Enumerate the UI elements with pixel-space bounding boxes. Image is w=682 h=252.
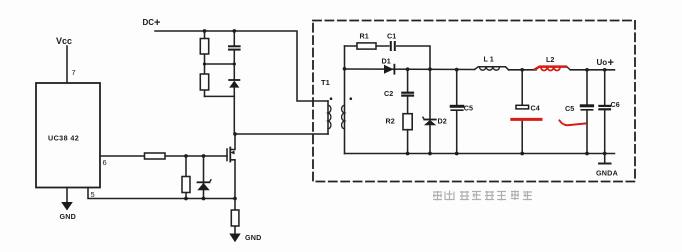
zener diode D2 label bbox=[438, 117, 447, 126]
ground GND (IC) bbox=[61, 202, 73, 211]
wire secondary ground rail bbox=[345, 153, 615, 155]
transformer T1 primary phase dot bbox=[330, 97, 333, 100]
svg-text:C4: C4 bbox=[531, 104, 540, 113]
wire C2/R2 damper branch bbox=[407, 69, 409, 92]
IC U1 value label bbox=[48, 134, 79, 143]
svg-text:C5: C5 bbox=[565, 104, 574, 113]
wire drain to primary bottom bbox=[234, 133, 328, 135]
node junction C5b branch bbox=[585, 68, 589, 72]
node secondary-top junction bbox=[343, 67, 347, 71]
inductor L2 (red annotated) bbox=[535, 67, 570, 71]
svg-text:Uo: Uo bbox=[597, 58, 608, 67]
capacitor C4 (black plate) bbox=[516, 105, 529, 109]
node DC+ label bbox=[143, 17, 161, 29]
svg-text:GND: GND bbox=[60, 212, 77, 221]
resistor R5 (current sense) bbox=[231, 210, 239, 226]
transformer T1 secondary phase dot bbox=[350, 97, 353, 100]
wire R4 branch bbox=[185, 156, 187, 199]
capacitor C5b label bbox=[565, 104, 574, 113]
svg-text:6: 6 bbox=[103, 158, 107, 167]
node Vcc label bbox=[56, 36, 72, 46]
svg-text:7: 7 bbox=[72, 68, 76, 77]
svg-text:C5: C5 bbox=[464, 104, 473, 113]
inductor L1 label bbox=[484, 55, 494, 64]
transformer T1 primary winding bbox=[328, 101, 331, 134]
wire pin 6 to gate bbox=[100, 155, 227, 157]
node junctions on DC+ rail bbox=[203, 29, 237, 33]
svg-text:R2: R2 bbox=[386, 117, 395, 126]
capacitor C7 (clamp) bbox=[229, 46, 240, 49]
node junction D2 branch bbox=[428, 67, 432, 71]
capacitor C5b (output filter) bbox=[581, 106, 592, 110]
svg-text:D2: D2 bbox=[438, 117, 447, 126]
resistor R3 (gate series) bbox=[145, 153, 166, 159]
svg-text:DC: DC bbox=[143, 18, 155, 27]
diode D3 (clamp) bbox=[229, 80, 239, 88]
node drain junction bbox=[233, 132, 237, 136]
svg-text:+: + bbox=[154, 17, 160, 29]
wire Vcc to pin 7 bbox=[66, 46, 68, 83]
wire source to sense resistor bbox=[234, 199, 236, 234]
svg-text:+: + bbox=[608, 57, 614, 69]
wire snubber left branch bbox=[204, 31, 206, 96]
wire secondary top to RC snubber bbox=[345, 46, 431, 69]
svg-text:GND: GND bbox=[245, 233, 262, 242]
IC U1 UC3842 box bbox=[36, 83, 100, 188]
transistor Q1 MOSFET bbox=[227, 134, 235, 199]
svg-text:T1: T1 bbox=[321, 78, 330, 87]
node junction C2 branch bbox=[406, 67, 410, 71]
svg-text:L2: L2 bbox=[546, 55, 554, 64]
wire zener branch bbox=[203, 156, 205, 199]
diode D1 (rectifier) bbox=[384, 65, 394, 74]
wire L2 to output bbox=[570, 69, 614, 71]
capacitor C5 (filter) bbox=[451, 106, 463, 110]
capacitor C2 bbox=[402, 93, 413, 96]
wire L1 to L2 bbox=[509, 69, 536, 71]
wire pin 5 / bottom return bbox=[88, 188, 235, 199]
wire C5 branch bbox=[456, 70, 458, 105]
svg-text:GNDA: GNDA bbox=[596, 169, 618, 178]
svg-text:R1: R1 bbox=[360, 32, 369, 41]
svg-text:D1: D1 bbox=[382, 57, 391, 66]
wire IC pin to ground bbox=[66, 188, 68, 203]
node junction C5 branch bbox=[455, 68, 459, 72]
zener diode Z1 (gate protect) bbox=[197, 180, 211, 190]
wire snubber mid tie bbox=[205, 63, 235, 65]
wire D2 branch bbox=[429, 69, 431, 119]
resistor R1 bbox=[357, 43, 376, 49]
wire DC+ rail to primary top bbox=[155, 31, 328, 101]
capacitor C4 red plate (annotation) bbox=[512, 118, 541, 121]
capacitor C2 label bbox=[384, 89, 393, 98]
svg-text:C1: C1 bbox=[387, 32, 396, 41]
node junction gate network bbox=[184, 154, 205, 158]
capacitor C1 label bbox=[387, 32, 396, 41]
resistor R2 label bbox=[386, 117, 395, 126]
resistor R6 (clamp upper) bbox=[200, 39, 208, 55]
zener diode D2 bbox=[423, 117, 436, 125]
resistor R2 bbox=[403, 114, 412, 130]
svg-text:UC38 42: UC38 42 bbox=[48, 134, 79, 143]
capacitor C6 bbox=[599, 106, 610, 109]
node junction C6 branch bbox=[603, 68, 607, 72]
wire C4 branch bbox=[521, 70, 523, 105]
wire output rectifier rail bbox=[345, 68, 475, 71]
caption 输出整流滤波电路 (gray hanzi strokes) bbox=[433, 191, 532, 201]
pin 5 label bbox=[91, 190, 95, 199]
inductor L1 bbox=[475, 67, 509, 70]
wire snubber bottom tie bbox=[205, 95, 235, 97]
ground GND (source) bbox=[229, 234, 240, 243]
wire C5b branch bbox=[586, 70, 588, 104]
wire snubber right branch bbox=[233, 31, 235, 45]
capacitor C4 label bbox=[531, 104, 540, 113]
resistor R1 label bbox=[360, 32, 369, 41]
node junctions on ground rail bbox=[406, 152, 607, 156]
capacitor C5 label bbox=[464, 104, 473, 113]
pin 7 label bbox=[72, 68, 76, 77]
transformer T1 secondary winding bbox=[342, 46, 345, 154]
diode D1 label bbox=[382, 57, 391, 66]
red annotation swoosh under C5b bbox=[560, 121, 586, 126]
resistor R4 (gate pulldown) bbox=[182, 177, 190, 193]
wire C6 branch bbox=[604, 70, 606, 105]
node junction C4 branch bbox=[520, 68, 524, 72]
node junctions on return wire bbox=[184, 197, 237, 201]
svg-text:C2: C2 bbox=[384, 89, 393, 98]
capacitor C1 bbox=[391, 42, 395, 50]
svg-text:L 1: L 1 bbox=[484, 55, 494, 64]
transformer T1 label bbox=[321, 78, 330, 87]
capacitor C6 label bbox=[611, 100, 620, 109]
dashed enclosure box (output section) bbox=[313, 21, 635, 182]
ground GNDA bbox=[599, 154, 611, 164]
pin 6 label bbox=[103, 158, 107, 167]
svg-text:Vcc: Vcc bbox=[56, 36, 72, 46]
svg-text:C6: C6 bbox=[611, 100, 620, 109]
inductor L2 label bbox=[546, 55, 554, 64]
resistor R7 (clamp lower) bbox=[200, 74, 208, 90]
svg-text:5: 5 bbox=[91, 190, 95, 199]
node Uo+ output label bbox=[597, 57, 614, 69]
